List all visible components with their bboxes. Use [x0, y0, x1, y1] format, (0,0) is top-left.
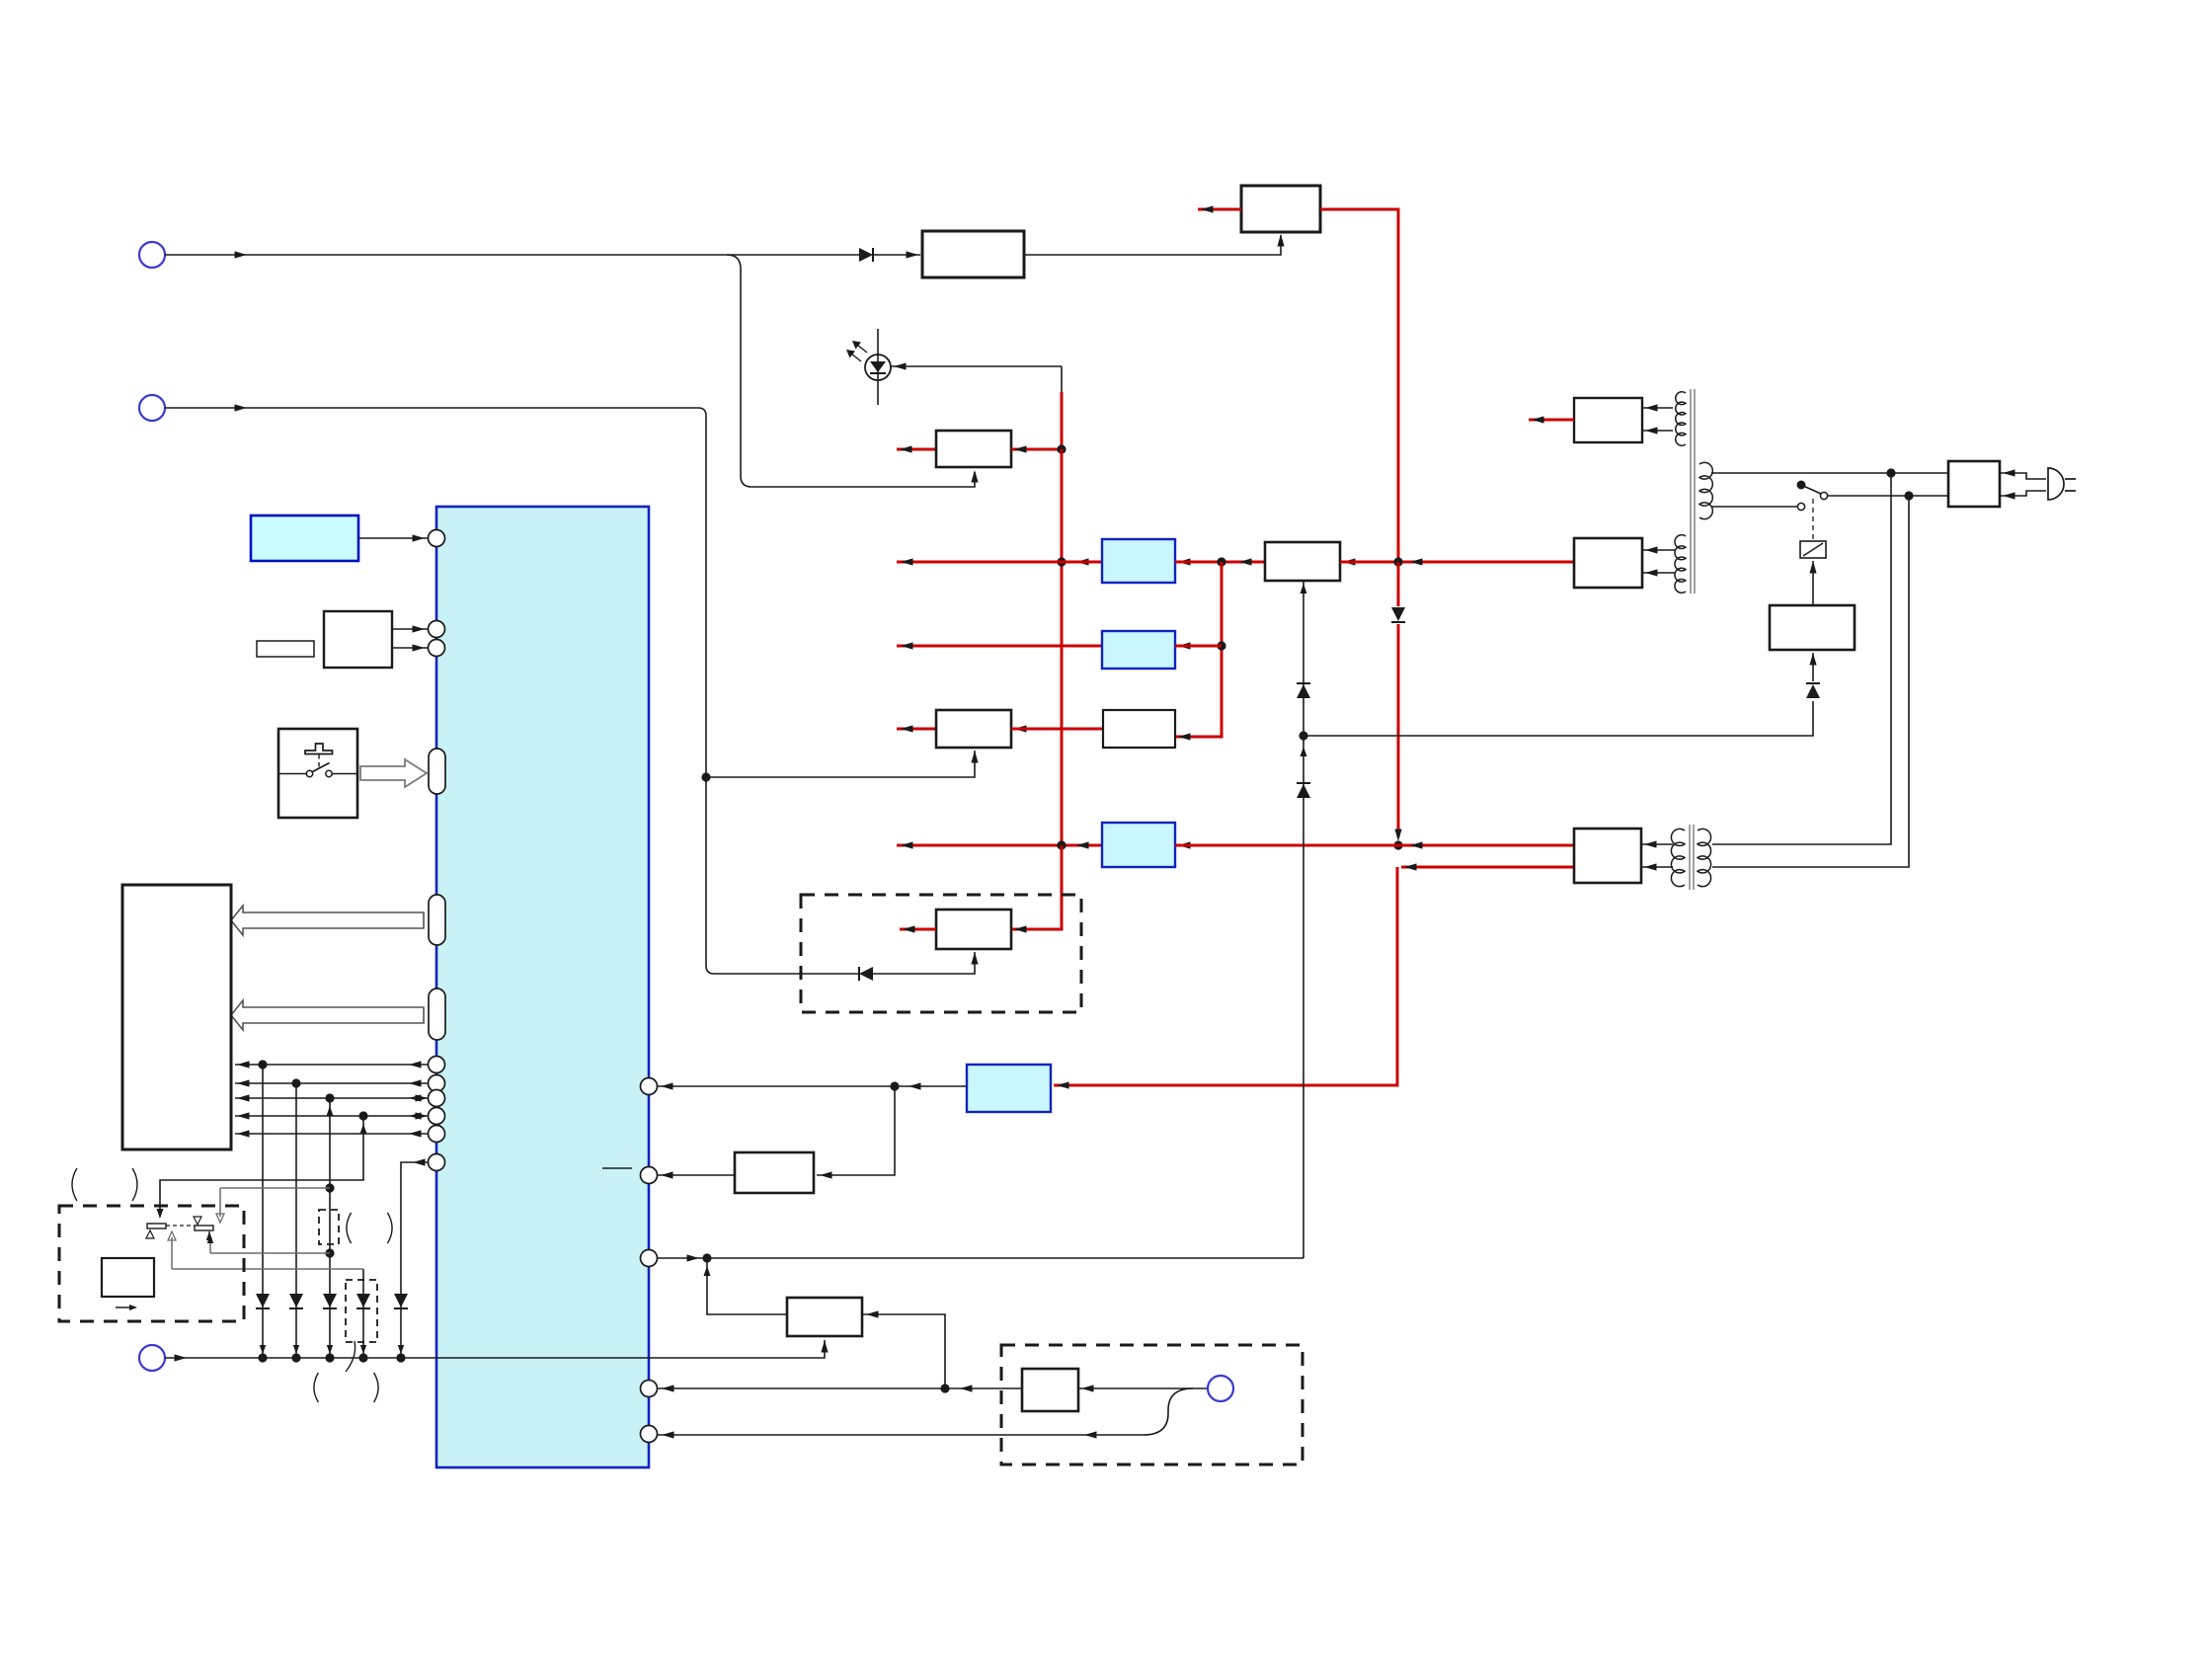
- box rectifier R3 (standby): [1574, 829, 1641, 883]
- wire junction down to box P2: [817, 1086, 895, 1175]
- dashed fragment around column x368: [346, 1280, 377, 1342]
- IC pin row 5: [429, 1126, 445, 1143]
- red stub arrow row1 left: [897, 448, 936, 451]
- junction mains neutral: [1904, 491, 1913, 500]
- junction on J2 vertical for row3 box: [701, 772, 710, 781]
- red main bus vertical lower: [1397, 624, 1400, 837]
- junction red rail/main red bus: [1393, 557, 1402, 566]
- box P3 (osc): [787, 1298, 862, 1336]
- cyan power detect box B4: [967, 1065, 1051, 1112]
- IC pin L-last: [429, 1154, 445, 1171]
- red rail y569 mid part: [1175, 561, 1265, 564]
- wires T2 secondary to R2: [1642, 549, 1675, 551]
- box remote amp (inside dashed): [1022, 1369, 1078, 1411]
- diode chain vertical x1320: [1303, 581, 1304, 1258]
- junction row 4: [358, 1111, 367, 1120]
- parenthesis pair below bus: [314, 1373, 319, 1402]
- IC pin 5: [641, 1426, 658, 1443]
- red return y878 to T3 box: [1401, 866, 1574, 869]
- junction row 2: [291, 1078, 300, 1087]
- junction row 3: [325, 1093, 334, 1102]
- parenthesis pair near display box: [72, 1168, 77, 1201]
- junction pin3 net: [702, 1253, 711, 1262]
- wire pinA net: [658, 1085, 967, 1087]
- column wire x334: [329, 1098, 331, 1358]
- key matrix row 2 wire: [235, 1082, 428, 1084]
- switch curve mark near bus: [346, 1341, 355, 1372]
- key matrix row 4 wire: [235, 1115, 428, 1117]
- red wire standby box to main red bus: [1320, 209, 1398, 562]
- wire remote box to connector J4: [1078, 1387, 1208, 1389]
- IC pin A: [641, 1078, 658, 1095]
- IC pin L1: [429, 530, 445, 547]
- column wire x266: [262, 1065, 264, 1358]
- diode column x334: [323, 1294, 337, 1307]
- junction bus x300: [291, 1353, 300, 1362]
- red stub protector left: [900, 928, 936, 931]
- connector J3 (bottom-left input): [139, 1345, 165, 1371]
- junction bus x334: [325, 1353, 334, 1362]
- IC stadium pin data1: [429, 895, 445, 945]
- cyan regulator box B2 (row 654): [1102, 631, 1175, 669]
- box rectifier R1 (top right): [1574, 398, 1642, 442]
- junction x334 b: [325, 1248, 334, 1257]
- red return vertical x1415: [1054, 867, 1397, 1085]
- box rectifier filter B (row3 mid): [1103, 710, 1175, 748]
- wire LED to red vertical A: [891, 365, 1062, 367]
- dashed box surge protector: [59, 1206, 244, 1321]
- relay dashed link: [1812, 499, 1814, 541]
- diode column x368: [356, 1294, 370, 1307]
- mains switch S1 contact b: [1797, 503, 1804, 510]
- red vertical A lower to protector box: [1011, 845, 1062, 929]
- arrow up into row3 junction: [327, 1106, 334, 1116]
- IC pin row 2: [429, 1075, 445, 1092]
- dashed fragment around column x334: [319, 1210, 339, 1244]
- transformer T3 core: [1689, 825, 1691, 890]
- connector J1 (top-left input): [139, 242, 165, 268]
- connector J4 (remote, blue circle): [1208, 1376, 1233, 1401]
- gray tap wire C to SCR: [172, 1268, 363, 1270]
- transformer primary coil: [1699, 462, 1712, 518]
- junction pinA net: [890, 1081, 899, 1090]
- diode column x300: [289, 1294, 303, 1307]
- wire J2 long vertical to pin3 net: [165, 408, 860, 974]
- box power key switch: [278, 729, 357, 818]
- wire junction down to box P3: [707, 1258, 787, 1314]
- wire clock box to pin L1: [358, 537, 428, 539]
- wire AC-DC box to standby box bottom: [1024, 235, 1281, 255]
- LED DL901: [865, 355, 891, 380]
- junction red vertical B row2: [1217, 641, 1225, 650]
- arrow up into row4 junction: [360, 1124, 367, 1134]
- box AC-DC converter (top): [922, 231, 1024, 277]
- diode column x406: [394, 1294, 408, 1307]
- wire D1 to AC-DC box: [873, 254, 920, 256]
- gray tap wire A to SCR: [220, 1187, 330, 1189]
- diode chain D3: [1297, 684, 1310, 698]
- wires AC inlet to plug: [2000, 473, 2046, 479]
- box display/keys (big left): [122, 885, 231, 1149]
- box AC inlet filter: [1948, 461, 2000, 507]
- arrow mark under trigger box: [116, 1307, 135, 1308]
- transformer T2 secondary coil: [1675, 535, 1686, 594]
- IC pin row 1: [429, 1057, 445, 1073]
- box standby supply (top-right): [1241, 186, 1320, 232]
- transformer T3 secondary coil: [1671, 829, 1685, 886]
- box P2 (reset): [735, 1152, 814, 1193]
- diode D2 on protector bottom feed: [859, 967, 873, 981]
- wire mains live down to T3: [1712, 473, 1891, 844]
- stub box left of X-tal: [257, 641, 314, 657]
- junction bus x266: [258, 1353, 267, 1362]
- junction mains live: [1886, 468, 1895, 477]
- AC plug: [2048, 468, 2064, 500]
- red rail y569 left part: [897, 561, 1102, 564]
- wire junction to row3 box bottom: [706, 751, 975, 777]
- diode D1: [859, 248, 873, 262]
- box relay driver: [1770, 605, 1855, 650]
- red stub R1: [1529, 419, 1574, 422]
- IC pin 4: [641, 1381, 658, 1397]
- wire D5 to relay driver box: [1812, 653, 1814, 681]
- cyan clock box (top-left): [251, 515, 358, 561]
- box LED driver (row1 left): [936, 431, 1011, 467]
- red row3 mid wire: [1011, 728, 1103, 731]
- power key contacts: [306, 770, 312, 776]
- wire pinLlast to diode column x406: [401, 1162, 428, 1358]
- red row3 stub left: [897, 728, 936, 731]
- box trigger (inside surge box): [102, 1258, 154, 1297]
- wire branch from J1 line down to regulator line: [727, 255, 975, 487]
- red row2 box to vertical B: [1175, 645, 1222, 648]
- junction red A row1: [1057, 444, 1066, 453]
- IC stadium pin data2: [429, 989, 445, 1040]
- IC pin L3: [429, 640, 445, 657]
- wire mains neutral down to T3: [1712, 496, 1909, 867]
- wire pin3 net: [658, 1257, 1303, 1259]
- wire primary bottom to switch: [1711, 506, 1797, 508]
- IC stadium pin power key: [429, 749, 445, 794]
- red wire row1 box to junction: [1011, 448, 1062, 451]
- red main bus vertical upper: [1397, 562, 1400, 606]
- wire pin4 net: [658, 1387, 1022, 1389]
- junction bus x368: [358, 1353, 367, 1362]
- power key dashed actuator: [318, 754, 320, 769]
- wire switch to AC inlet: [1828, 495, 1948, 497]
- red vertical A upper segment: [1061, 366, 1063, 393]
- wire xtal pin a: [392, 628, 428, 630]
- wires T1 secondary to R1: [1642, 407, 1673, 409]
- transformer T1 secondary coil: [1676, 392, 1686, 446]
- junction row 1: [258, 1060, 267, 1069]
- IC pin row 3: [429, 1090, 445, 1107]
- diode column x266: [256, 1294, 270, 1307]
- junction x334 a: [325, 1183, 334, 1192]
- junction red A row4: [1057, 840, 1066, 849]
- red rail y569 right part: [1340, 561, 1574, 564]
- gray tap wire B to SCR: [210, 1252, 330, 1254]
- junction main red bus row4: [1393, 840, 1402, 849]
- connector J2 (second input): [139, 395, 165, 421]
- key matrix row 1 wire: [235, 1064, 428, 1066]
- cyan regulator box B1 (row 569): [1102, 539, 1175, 583]
- column wire x300: [295, 1083, 297, 1358]
- parenthesis pair near column x334: [347, 1213, 352, 1243]
- dashed box remote sensor: [1001, 1345, 1303, 1465]
- IC pin L2: [429, 621, 445, 638]
- IC pin 2: [641, 1167, 658, 1184]
- red vertical B (x1237): [1175, 562, 1222, 737]
- mains switch S1 contact a: [1820, 492, 1827, 499]
- open arrow bus to display 2: [231, 1000, 424, 1030]
- junction red A row 569: [1057, 557, 1066, 566]
- box X-tal: [324, 611, 392, 668]
- bus wire y1375: [165, 1340, 825, 1358]
- wire P3 right to junction x957: [862, 1314, 945, 1388]
- red vertical A mid segment: [1061, 449, 1064, 845]
- dash mark inside IC near pin2: [602, 1167, 632, 1169]
- wire remote S-curve to pin5: [658, 1388, 1193, 1435]
- IC pin row 4: [429, 1108, 445, 1125]
- wire junction to relay driver: [1303, 701, 1813, 736]
- wires T3 secondary to R3: [1641, 843, 1673, 845]
- transformer T3 primary coil: [1698, 829, 1711, 886]
- wire P2 to pin2: [658, 1174, 735, 1176]
- transformer core T1/T2: [1690, 389, 1692, 594]
- junction bus x406: [396, 1353, 405, 1362]
- diode chain junction: [1299, 731, 1307, 740]
- box rectifier R2 (mid right): [1574, 538, 1642, 588]
- LED emission arrows: [857, 345, 867, 353]
- wire diode to protector bottom: [873, 952, 975, 974]
- key matrix row 3 wire: [235, 1097, 428, 1099]
- wire primary top to mains: [1711, 472, 1948, 474]
- power key cap symbol: [305, 744, 333, 754]
- red stub out of standby box (left): [1198, 208, 1241, 211]
- mains switch S1 common: [1797, 481, 1806, 490]
- IC pin 3: [641, 1250, 658, 1267]
- key matrix row 5 wire: [235, 1133, 428, 1135]
- diode chain D4: [1297, 784, 1310, 798]
- junction red rail/vertical B: [1217, 557, 1225, 566]
- red row4 right part: [1175, 844, 1574, 847]
- box protector (inside dashed): [936, 910, 1011, 949]
- diode D5 relay: [1806, 684, 1820, 698]
- thyristor pair symbol: [147, 1224, 166, 1228]
- red row4 left part: [897, 844, 1102, 847]
- IC U1 main system block: [436, 507, 649, 1467]
- column wire x368 upper to SCR line: [160, 1116, 363, 1217]
- red main bus diode D-bus: [1391, 607, 1405, 621]
- dashed box protector circuit: [801, 895, 1081, 1012]
- cyan regulator box B3 (row 856): [1102, 823, 1175, 867]
- column wire x368 lower: [362, 1269, 364, 1358]
- wire relay driver to relay coil: [1812, 561, 1814, 605]
- wire xtal pin b: [392, 647, 428, 649]
- open arrow power key to IC: [360, 759, 427, 787]
- junction x957 pin4 net: [940, 1384, 949, 1392]
- wire J1 to D1: [165, 254, 860, 256]
- open arrow bus to display 1: [231, 906, 424, 935]
- red row2 stub left: [897, 645, 1102, 648]
- relay coil box RY1: [1800, 541, 1826, 558]
- box rectifier filter A (row 569): [1265, 542, 1340, 581]
- box regulator (row3 left): [936, 710, 1011, 748]
